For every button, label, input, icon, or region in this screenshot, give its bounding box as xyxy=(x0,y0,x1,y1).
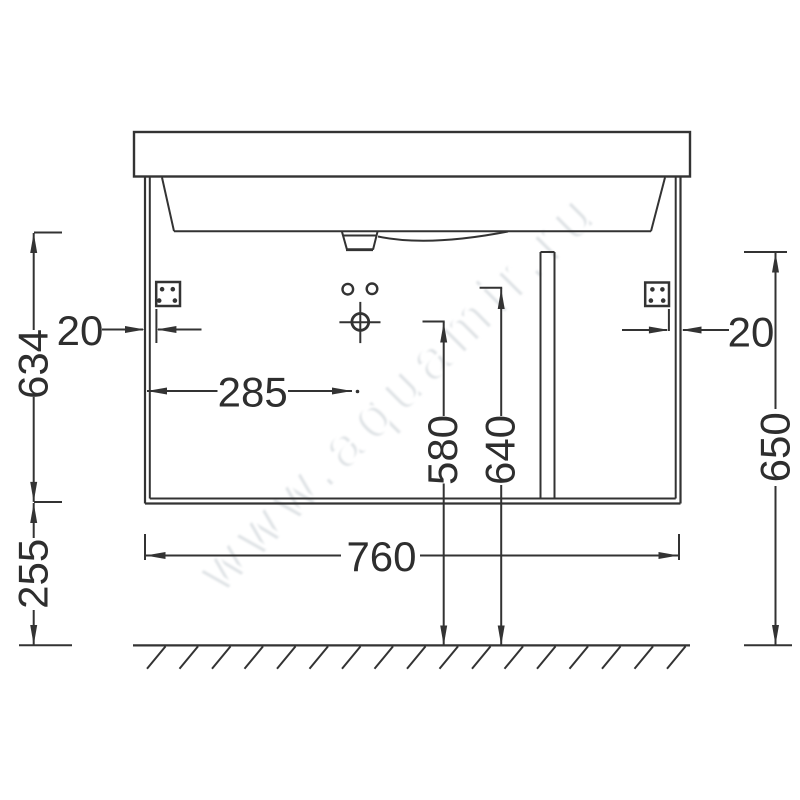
dim 760 right arrow xyxy=(659,552,679,559)
cabinet right wall inner line xyxy=(675,177,677,499)
cabinet left wall outer line xyxy=(144,177,146,504)
dim 640 line lower segment xyxy=(500,485,502,646)
cabinet left wall inner line xyxy=(149,177,151,499)
dim 760 right end tick xyxy=(678,534,680,560)
mid extension tick between 634 and 255 xyxy=(34,501,62,503)
svg-text:634: 634 xyxy=(10,329,57,399)
dim 650 line lower segment xyxy=(775,486,777,645)
dim 634 bottom arrow xyxy=(30,482,37,502)
dim 760 line right segment xyxy=(420,555,679,557)
dim 255 label xyxy=(10,539,57,609)
drain recess right side xyxy=(373,232,378,250)
washbasin rim (top rectangle) xyxy=(134,132,690,177)
dim 650 bottom tick xyxy=(744,644,792,646)
dim 255 line lower segment xyxy=(33,610,35,645)
dim 634 top arrow xyxy=(30,233,37,253)
dim 580 line lower segment xyxy=(443,484,445,646)
dim 20 right outer line xyxy=(683,329,729,331)
drain recess left side xyxy=(342,232,347,250)
dim 640 label xyxy=(477,415,524,485)
dim 20 right inner line xyxy=(622,329,667,331)
interior divider panel xyxy=(541,252,555,499)
dim 640 line upper segment xyxy=(500,288,502,416)
left bracket extension line xyxy=(155,309,157,343)
dim 20 left inner line xyxy=(158,329,202,331)
cabinet right wall outer line xyxy=(679,177,681,504)
dim 285 left line xyxy=(147,390,218,392)
faucet center mark vertical line xyxy=(359,302,361,343)
dim 760 line left segment xyxy=(146,555,342,557)
dim 650 top arrow xyxy=(772,253,779,273)
svg-text:640: 640 xyxy=(477,415,524,485)
dim 760 left end tick xyxy=(144,534,146,560)
dim 255 top arrow xyxy=(30,503,37,523)
dim 650 label xyxy=(751,412,798,482)
dim 580 bottom arrow xyxy=(440,626,447,646)
svg-text:285: 285 xyxy=(218,369,288,416)
svg-text:650: 650 xyxy=(751,412,798,482)
right mounting bracket xyxy=(645,283,669,307)
drain recess bottom xyxy=(346,248,373,251)
svg-text:20: 20 xyxy=(728,309,775,356)
watermark www.aquamir.ru xyxy=(186,174,614,602)
dim 650 bottom arrow xyxy=(772,625,779,645)
basin interior bottom edge xyxy=(174,230,651,232)
dim 640 top arrow xyxy=(498,289,505,309)
dim 650 line upper segment xyxy=(775,253,777,410)
right bracket extension line xyxy=(668,309,670,331)
basin interior right taper xyxy=(651,178,665,232)
svg-text:580: 580 xyxy=(419,415,466,485)
cabinet bottom outer line xyxy=(145,502,681,504)
dim 580 label xyxy=(419,415,466,485)
dim 255 bottom tick xyxy=(19,644,72,646)
dim 640 top tick xyxy=(480,287,503,289)
dim 634 top extension tick xyxy=(34,232,62,234)
dim 20 right outer arrow xyxy=(682,327,702,334)
dim 255 bottom arrow xyxy=(30,625,37,645)
left mounting bracket xyxy=(156,282,180,306)
dim 580 top arrow xyxy=(440,323,447,343)
dim 760 left arrow xyxy=(146,552,166,559)
dim 285 right arrow xyxy=(332,388,352,395)
dim 580 top tick xyxy=(423,321,445,323)
svg-text:255: 255 xyxy=(10,539,57,609)
dim 285 reference dot xyxy=(356,390,360,394)
dim 580 line upper segment xyxy=(443,322,445,416)
dim 634 line upper segment xyxy=(33,233,35,330)
ground hatching xyxy=(147,646,686,668)
dim 285 right line xyxy=(288,390,352,392)
dim 20 right inner arrow xyxy=(649,327,669,334)
dim 634 label xyxy=(10,329,57,399)
dim 255 line upper segment xyxy=(33,503,35,538)
dim 640 bottom arrow xyxy=(498,626,505,646)
cabinet bottom inner line xyxy=(150,498,676,500)
dim 20 left outer line xyxy=(102,329,143,331)
svg-text:20: 20 xyxy=(57,307,104,354)
basin bottom slope toward drain xyxy=(378,232,508,241)
basin interior left taper xyxy=(162,178,174,232)
drain recess inner top line xyxy=(343,235,376,237)
faucet hole small circle right xyxy=(367,284,378,295)
ground line xyxy=(133,644,690,646)
faucet center mark circle xyxy=(352,314,369,331)
faucet hole small circle left xyxy=(343,284,354,295)
dim 20 left outer arrow xyxy=(125,326,145,333)
dim 285 left arrow xyxy=(147,388,167,395)
dim 634 line lower segment xyxy=(33,397,35,502)
faucet center mark horizontal line xyxy=(339,321,380,323)
svg-text:760: 760 xyxy=(346,533,416,580)
dim 20 left inner arrow xyxy=(156,326,176,333)
dim 650 top tick xyxy=(744,251,787,253)
